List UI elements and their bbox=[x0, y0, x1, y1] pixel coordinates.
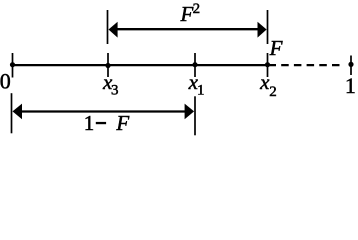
svg-text:1: 1 bbox=[197, 82, 205, 98]
svg-text:2: 2 bbox=[193, 1, 201, 17]
svg-text:1: 1 bbox=[84, 111, 95, 135]
svg-text:0: 0 bbox=[0, 68, 11, 93]
svg-text:3: 3 bbox=[111, 82, 119, 98]
svg-text:2: 2 bbox=[269, 84, 277, 100]
svg-text:F: F bbox=[179, 2, 193, 26]
svg-text:F: F bbox=[269, 36, 283, 60]
svg-text:1: 1 bbox=[345, 73, 356, 98]
svg-text:F: F bbox=[115, 111, 129, 135]
